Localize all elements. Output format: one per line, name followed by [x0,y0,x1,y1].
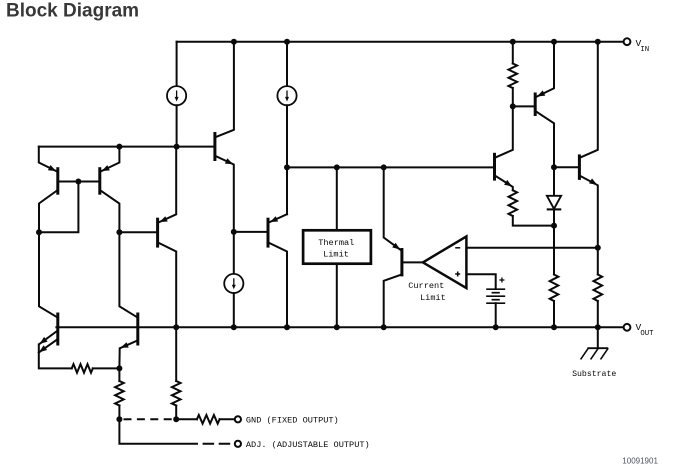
terminal VOUT [624,324,631,331]
resistor R4 [594,275,603,302]
wire Q8 base [513,105,534,107]
resistor R1 [512,42,514,64]
transistor Q9 npn [578,154,581,180]
junction x598 y248 [595,245,601,251]
junction top rail x598 [595,39,601,45]
wire Q4 base [119,231,156,233]
transistor Q3 npn [213,132,216,161]
junction top rail x553 [551,39,557,45]
junction top rail x513 [510,39,516,45]
transistor Q8 pnp [534,93,537,117]
junction mid rail x384 [381,164,387,170]
transistor Q5 pnp [267,218,270,248]
svg-text:Limit: Limit [420,293,446,303]
wire op-amp plus input to reference [466,274,495,289]
wire adj row [119,419,185,444]
junction bottom x337 [334,324,340,330]
battery plus label [499,279,504,281]
current source I1 [176,42,178,86]
Q10 emitter 1 [39,332,56,345]
junction bottom x287 [284,324,290,330]
resistor R5 [72,364,93,373]
transistor Q10 npn dual emitter [56,313,59,346]
op-amp minus sign [455,247,460,249]
svg-text:Limit: Limit [323,250,349,260]
wire Q10 emitters to R5 [39,345,72,369]
current source I2 [286,42,288,86]
wire left bias line y147 [39,146,214,148]
junction x119 y147 [116,144,122,150]
wire thermal box to bottom rail [336,264,338,328]
Q10 emitter 2 [39,340,57,353]
resistor R8 [197,415,220,424]
junction bottom x496 [493,324,499,330]
junction base tie [75,179,81,185]
junction top rail x287 [284,39,290,45]
svg-text:Thermal: Thermal [318,238,354,248]
current source I3 [224,274,243,293]
svg-text:Block Diagram: Block Diagram [6,1,139,22]
wire Q9 base [554,166,578,168]
junction x554 y167 [551,164,557,170]
wire R2 to diode node [513,216,554,226]
op-amp U1 current limit comparator [423,236,467,288]
wire Q6 base to op-amp [403,261,422,263]
terminal VIN [624,38,631,45]
junction bottom x598 [595,324,601,330]
svg-text:Substrate: Substrate [572,369,616,379]
wire to thermal limit box [336,167,338,230]
junction x176 y419 [173,416,179,422]
wire base to collector tie [40,182,78,233]
transistor Q2 pnp [98,167,101,195]
dashed wire gnd row [124,418,174,420]
transistor Q11 npn [136,313,139,346]
junction x119 y368 [116,365,122,371]
junction Q3 emitter node [231,229,237,235]
substrate ground [597,327,599,348]
junction mid rail x337 [334,164,340,170]
wire bottom rail [56,326,623,328]
svg-text:10091901: 10091901 [622,457,658,466]
transistor Q1 pnp diode-connected [56,167,59,195]
terminal ADJ [235,441,241,447]
wire mid rail y167 [287,166,493,168]
junction x119 y419 [116,416,122,422]
junction x177 y147 [174,144,180,150]
op-amp plus sign [455,273,460,275]
resistor R2 [509,190,518,216]
resistor R3 [550,275,559,302]
wire op-amp minus input [466,247,597,249]
transistor Q7 npn [493,153,496,181]
terminal GND [235,416,241,422]
svg-text:Current: Current [408,281,444,291]
svg-text:IN: IN [640,46,649,54]
transistor Q4 pnp [156,218,159,248]
wire to R6 [118,368,120,381]
resistor R6 [115,381,124,406]
junction bottom x384 [381,324,387,330]
diode D1 [547,196,561,209]
wire diode to R3 [553,209,555,274]
block Thermal Limit [303,230,371,263]
resistor R7 [172,381,181,406]
wire top supply rail [177,41,624,43]
svg-text:GND (FIXED OUTPUT): GND (FIXED OUTPUT) [246,416,339,426]
junction bottom x176 [173,324,179,330]
junction x119 y232 [116,229,122,235]
junction x554 y226 [551,223,557,229]
wire I2 to Q5 emitter [286,105,288,214]
junction bottom x234 [231,324,237,330]
wire Q4 collector below rail to R7 [175,327,177,381]
junction mid rail x287 [284,164,290,170]
wire Q1-Q2 base tie [59,181,98,183]
wire Q5 base [234,231,267,233]
svg-text:ADJ. (ADJUSTABLE OUTPUT): ADJ. (ADJUSTABLE OUTPUT) [246,440,370,450]
dashed wire adj row [187,443,232,445]
junction bottom x554 [551,324,557,330]
transistor Q6 pnp current limit [384,167,401,249]
battery BT1 voltage reference [486,288,505,290]
svg-text:OUT: OUT [640,330,654,338]
wire to R8 [176,418,197,420]
junction top rail x234 [231,39,237,45]
wire battery to bottom rail [495,303,497,327]
junction x513 y106 [510,103,516,109]
junction x39 y232 [36,229,42,235]
